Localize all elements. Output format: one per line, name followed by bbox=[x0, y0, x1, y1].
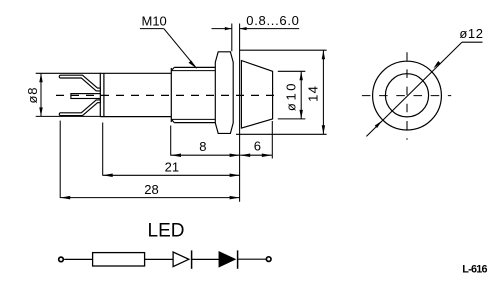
diode D2 (filled) bbox=[219, 252, 235, 267]
svg-text:0.8...6.0: 0.8...6.0 bbox=[246, 13, 299, 28]
front view outer circle bbox=[373, 61, 442, 130]
wire right bbox=[238, 258, 267, 260]
thread section M10 bbox=[171, 67, 215, 122]
terminal left bbox=[59, 257, 64, 262]
terminal right bbox=[266, 257, 271, 262]
centerline main axis bbox=[56, 94, 277, 96]
diode D1 (open) bbox=[173, 252, 189, 267]
pin bottom bbox=[59, 100, 100, 116]
svg-text:LED: LED bbox=[148, 220, 185, 241]
front view vertical centerline bbox=[406, 52, 408, 140]
svg-text:ø10: ø10 bbox=[284, 81, 299, 111]
dimension ø12 leader bbox=[366, 26, 483, 136]
dimension ø10 bbox=[278, 71, 306, 119]
wire R to D1 bbox=[145, 258, 174, 260]
svg-text:ø8: ø8 bbox=[25, 87, 40, 104]
pin top bbox=[59, 75, 100, 91]
svg-text:14: 14 bbox=[306, 85, 321, 102]
bezel cap bbox=[241, 61, 272, 129]
pin middle flat blade bbox=[71, 94, 100, 99]
wire D1 to D2 bbox=[192, 258, 220, 260]
dimension ø8 bbox=[25, 73, 101, 116]
diode D1 cathode bar bbox=[191, 250, 193, 268]
dimension 6 bbox=[240, 121, 272, 159]
svg-text:L-616: L-616 bbox=[462, 264, 487, 276]
svg-text:8: 8 bbox=[199, 139, 206, 154]
dimension 0.8...6.0 bbox=[212, 13, 300, 51]
front view inner circle bbox=[385, 74, 428, 117]
dimension 21 bbox=[103, 123, 240, 178]
wire left bbox=[64, 258, 92, 260]
svg-text:ø12: ø12 bbox=[459, 26, 483, 41]
dimension 8 bbox=[171, 126, 240, 157]
svg-text:28: 28 bbox=[144, 182, 158, 197]
svg-text:6: 6 bbox=[254, 139, 261, 154]
body cylinder bbox=[100, 73, 171, 116]
dimension 14 bbox=[236, 50, 327, 134]
flange extension line bbox=[239, 24, 241, 202]
hex nut bbox=[215, 52, 233, 134]
label M10 with leader bbox=[140, 14, 197, 69]
diode D2 cathode bar bbox=[237, 250, 239, 268]
front view horizontal centerline bbox=[362, 95, 451, 97]
svg-text:21: 21 bbox=[165, 159, 179, 174]
dimension 28 bbox=[60, 121, 239, 200]
resistor R bbox=[93, 253, 145, 266]
svg-text:M10: M10 bbox=[142, 14, 167, 29]
